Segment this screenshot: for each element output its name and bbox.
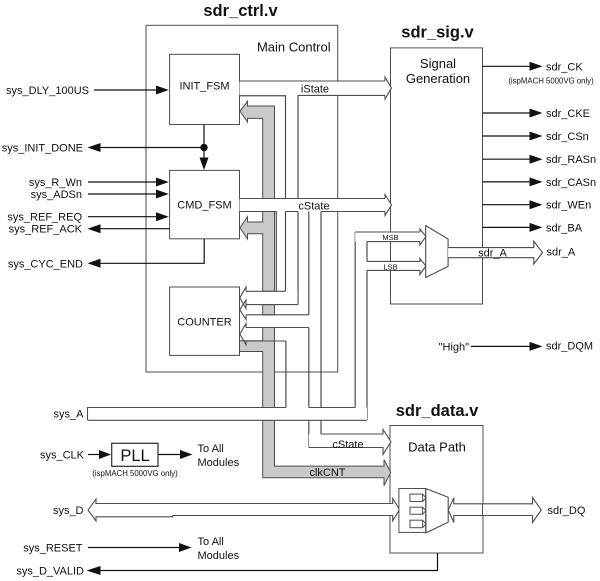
wire iState branch left side	[240, 96, 286, 292]
wire sys_INIT_DONE	[88, 125, 209, 171]
svg-text:sys_RESET: sys_RESET	[23, 543, 83, 555]
svg-text:sdr_sig.v: sdr_sig.v	[401, 24, 474, 42]
wire sdr_CKE	[483, 109, 543, 118]
svg-text:(ispMACH 5000VG only): (ispMACH 5000VG only)	[508, 76, 594, 85]
svg-text:CMD_FSM: CMD_FSM	[177, 200, 231, 212]
svg-text:sdr_A: sdr_A	[478, 248, 507, 260]
wire sdr_RASn	[483, 155, 543, 164]
gray bus clkCNT mid trunk with arrow into CMD_FSM	[240, 212, 275, 292]
svg-text:iState: iState	[301, 84, 329, 96]
wire sys_REF_ACK	[88, 224, 170, 233]
svg-text:sdr_A: sdr_A	[547, 247, 576, 259]
wire sys_RESET to all modules	[88, 543, 192, 552]
wire iState branch right side	[297, 95, 299, 304]
wire cState to COUNTER band2 right side	[308, 212, 310, 315]
bus cState	[240, 195, 392, 216]
register block in Data Path	[399, 489, 426, 533]
svg-text:cState: cState	[332, 439, 363, 451]
svg-text:COUNTER: COUNTER	[177, 316, 231, 328]
register cell 3	[410, 520, 423, 528]
svg-text:clkCNT: clkCNT	[309, 467, 345, 479]
svg-text:sys_REF_ACK: sys_REF_ACK	[9, 224, 83, 236]
svg-text:MSB: MSB	[382, 233, 398, 242]
wire sys_CLK to PLL	[88, 450, 111, 459]
wire LSB bottom to sys_A	[366, 270, 368, 420]
svg-text:sdr_CSn: sdr_CSn	[546, 131, 589, 143]
bus sys_D	[88, 499, 400, 522]
wire sdr_CSn	[483, 132, 543, 141]
svg-text:sys_DLY_100US: sys_DLY_100US	[6, 85, 89, 97]
svg-text:sys_D_VALID: sys_D_VALID	[16, 566, 84, 578]
wire sys_DLY_100US	[94, 86, 169, 95]
block INIT_FSM	[170, 54, 240, 124]
chevron register 3 to mux	[423, 520, 426, 528]
wire cState to Data Path right side	[320, 212, 322, 435]
wire sys_A to MSB left side	[354, 232, 356, 408]
svg-text:sys_CYC_END: sys_CYC_END	[8, 258, 83, 270]
wire band3 bottom to sys_A	[285, 341, 287, 408]
gray bus clkCNT upper trunk with arrow into INIT_FSM	[240, 101, 275, 198]
bus sys_A	[88, 408, 368, 421]
wire Data Path right edge across sdr_DQ	[482, 504, 484, 516]
svg-text:sdr_RASn: sdr_RASn	[546, 154, 596, 166]
register cell 2	[410, 507, 423, 514]
node junction dot	[201, 144, 207, 150]
gray bus clkCNT trunk segment behind COUNTER band2	[263, 305, 275, 315]
wire band3 to Data Path cState left side	[308, 328, 310, 448]
bus into COUNTER band3	[240, 324, 309, 345]
svg-text:sdr_CK: sdr_CK	[546, 62, 583, 74]
wire PLL to all modules	[159, 450, 193, 459]
svg-text:sdr_DQM: sdr_DQM	[546, 340, 593, 352]
svg-text:LSB: LSB	[383, 263, 397, 272]
svg-text:To All: To All	[198, 536, 224, 548]
wire sys_R_Wn	[88, 178, 169, 187]
wire sdr_BA	[483, 223, 543, 232]
module box sdr_sig.v	[391, 48, 483, 304]
bus iState	[240, 77, 392, 99]
wire cState branch to COUNTER band1	[275, 212, 277, 292]
svg-text:sys_REF_REQ: sys_REF_REQ	[7, 212, 82, 224]
gray bus clkCNT lower trunk with COUNTER output arm and arrow into Data Path	[240, 328, 391, 486]
wire sdr_CASn	[483, 177, 543, 186]
module box sdr_data.v	[390, 426, 483, 554]
svg-text:INIT_FSM: INIT_FSM	[179, 81, 229, 93]
svg-text:sdr_BA: sdr_BA	[546, 222, 583, 234]
chevron register 1 to mux	[423, 494, 426, 501]
bus into COUNTER band2	[240, 300, 309, 320]
wire sys_D_VALID from Data Path	[87, 553, 438, 575]
wire sys_REF_REQ	[88, 212, 169, 221]
register cell 1	[410, 494, 423, 501]
svg-text:Main Control: Main Control	[257, 40, 331, 55]
svg-text:Generation: Generation	[406, 71, 470, 86]
mux in sdr_sig	[426, 226, 448, 278]
block COUNTER	[170, 287, 240, 355]
block CMD_FSM	[170, 170, 240, 238]
svg-text:sys_A: sys_A	[54, 409, 85, 421]
svg-text:sys_INIT_DONE: sys_INIT_DONE	[2, 143, 83, 155]
svg-text:sdr_WEn: sdr_WEn	[546, 200, 591, 212]
svg-text:Modules: Modules	[198, 457, 240, 469]
svg-text:sys_R_Wn: sys_R_Wn	[29, 177, 82, 189]
svg-text:sys_ADSn: sys_ADSn	[31, 189, 82, 201]
svg-text:(ispMACH 5000VG only): (ispMACH 5000VG only)	[92, 469, 178, 478]
svg-text:Signal: Signal	[420, 56, 456, 71]
bus cState into Data Path	[309, 430, 391, 455]
bus sdr_DQ	[448, 498, 541, 523]
wire sys_ADSn	[88, 190, 169, 199]
svg-text:Data Path: Data Path	[408, 440, 466, 455]
svg-text:To All: To All	[198, 443, 224, 455]
svg-text:sdr_data.v: sdr_data.v	[396, 402, 479, 420]
bus sdr_A	[448, 241, 542, 264]
svg-text:sys_CLK: sys_CLK	[40, 450, 85, 462]
svg-text:"High": "High"	[439, 341, 470, 353]
wire sdr_WEn	[483, 200, 543, 209]
wire sdr_CK	[483, 62, 543, 71]
wire High to sdr_DQM	[471, 342, 543, 351]
wire sys_CYC_END	[88, 239, 205, 268]
bus MSB into mux	[355, 229, 426, 245]
svg-text:sys_D: sys_D	[53, 505, 84, 517]
bus into COUNTER band1	[240, 287, 298, 309]
svg-text:sdr_ctrl.v: sdr_ctrl.v	[203, 2, 278, 20]
svg-text:PLL: PLL	[120, 447, 149, 465]
svg-text:cState: cState	[298, 201, 329, 213]
mux in Data Path	[426, 489, 448, 533]
wire INIT_FSM to CMD_FSM	[203, 125, 205, 160]
svg-text:sdr_CASn: sdr_CASn	[546, 177, 596, 189]
chevron register 2 to mux	[423, 507, 426, 514]
module box sdr_ctrl.v	[146, 25, 338, 372]
wire MSB bottom to LSB top	[366, 242, 368, 262]
block PLL	[112, 443, 158, 466]
svg-text:sdr_DQ: sdr_DQ	[548, 505, 586, 517]
svg-text:sdr_CKE: sdr_CKE	[546, 108, 590, 120]
thin wires in middle channel	[240, 95, 368, 447]
bus LSB into mux	[367, 259, 426, 275]
svg-text:Modules: Modules	[198, 550, 240, 562]
